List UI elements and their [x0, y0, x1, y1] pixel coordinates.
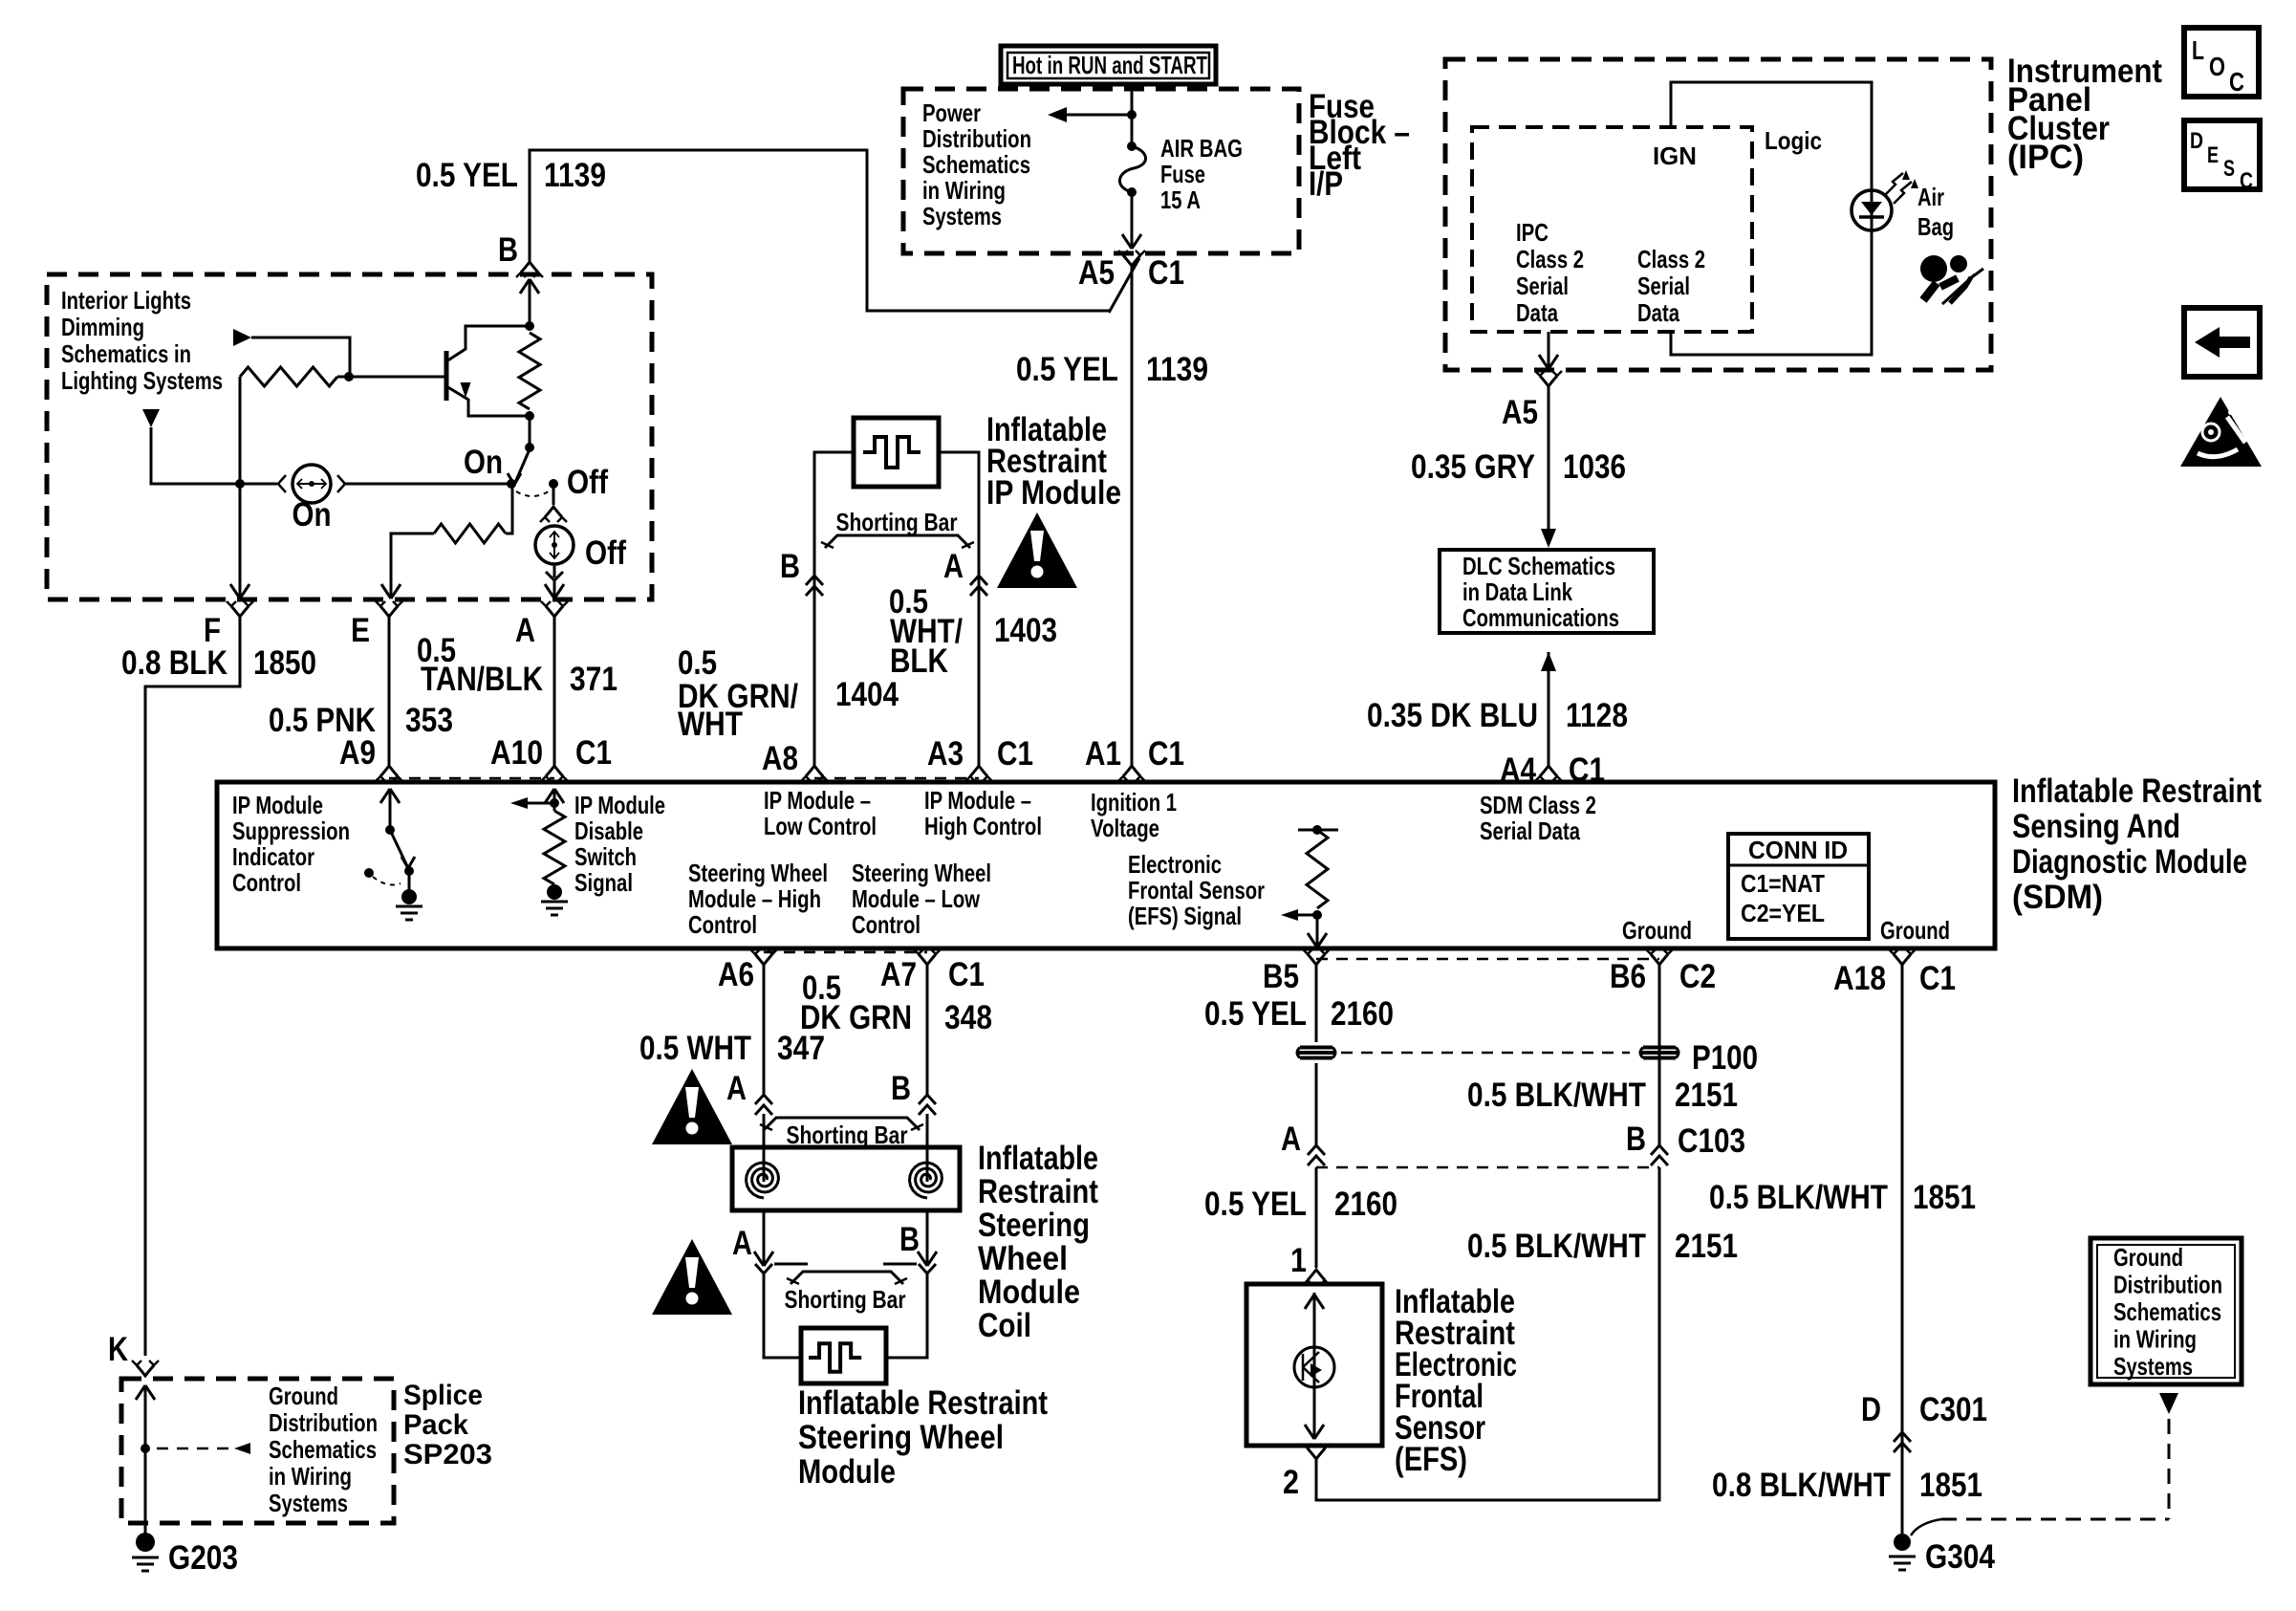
svg-text:1851: 1851: [1919, 1467, 1982, 1504]
svg-text:2151: 2151: [1675, 1077, 1738, 1114]
svg-text:C2=YEL: C2=YEL: [1741, 899, 1825, 927]
svg-text:Frontal Sensor: Frontal Sensor: [1128, 876, 1265, 904]
svg-text:1: 1: [1290, 1242, 1307, 1279]
svg-text:IPC: IPC: [1516, 218, 1549, 247]
svg-text:G304: G304: [1925, 1538, 1995, 1576]
arrow to other power distribution circuits: [1065, 114, 1132, 117]
svg-text:Suppression: Suppression: [232, 816, 350, 845]
steering wheel module squib box: [801, 1328, 886, 1383]
svg-text:Ground: Ground: [269, 1382, 338, 1410]
svg-text:Control: Control: [688, 910, 757, 939]
svg-text:A5: A5: [1078, 254, 1115, 292]
svg-text:A: A: [943, 548, 964, 585]
svg-text:Class 2: Class 2: [1516, 245, 1584, 273]
dashed reference wire to G304: [2168, 1419, 2171, 1519]
svg-text:A18: A18: [1833, 960, 1886, 997]
svg-text:Wheel: Wheel: [978, 1240, 1068, 1277]
svg-text:E: E: [2207, 142, 2219, 168]
svg-text:2151: 2151: [1675, 1228, 1738, 1265]
svg-text:0.5 YEL: 0.5 YEL: [1204, 995, 1307, 1033]
svg-text:C1: C1: [1919, 960, 1956, 997]
svg-text:E: E: [351, 612, 370, 649]
svg-text:Off: Off: [585, 534, 626, 572]
EFS signal pull-up resistor: [1298, 829, 1338, 832]
svg-text:C1: C1: [948, 956, 985, 993]
svg-text:Splice: Splice: [403, 1380, 483, 1411]
svg-text:0.8 BLK: 0.8 BLK: [121, 644, 227, 682]
svg-text:(EFS): (EFS): [1395, 1441, 1467, 1478]
svg-text:Steering: Steering: [978, 1207, 1090, 1244]
svg-text:CONN ID: CONN ID: [1748, 836, 1848, 864]
svg-text:0.5: 0.5: [678, 644, 717, 682]
svg-text:Control: Control: [232, 868, 301, 897]
ground distribution reference box: [2090, 1238, 2242, 1384]
svg-text:B: B: [780, 548, 800, 585]
shorting bar coil upper: [764, 1118, 920, 1130]
svg-text:Air: Air: [1917, 183, 1944, 211]
DLC schematics box: [1440, 550, 1654, 633]
svg-text:A8: A8: [762, 740, 798, 777]
svg-text:(EFS) Signal: (EFS) Signal: [1128, 902, 1242, 930]
svg-text:Hot in RUN and START: Hot in RUN and START: [1012, 51, 1207, 79]
wire squib B leg: [814, 452, 854, 766]
svg-text:A7: A7: [880, 956, 917, 993]
svg-text:0.5 BLK/WHT: 0.5 BLK/WHT: [1467, 1077, 1646, 1114]
transistor Q1 base wire: [349, 376, 445, 379]
svg-text:0.35 GRY: 0.35 GRY: [1411, 448, 1535, 486]
svg-text:DLC Schematics: DLC Schematics: [1462, 552, 1615, 580]
squib element: [863, 437, 921, 468]
svg-text:TAN/BLK: TAN/BLK: [421, 661, 543, 698]
svg-text:High Control: High Control: [924, 812, 1042, 840]
svg-text:0.5 WHT: 0.5 WHT: [639, 1030, 751, 1067]
wire into coil: [763, 1114, 766, 1182]
air bag indicator LED: [1852, 190, 1892, 230]
svg-text:353: 353: [405, 702, 453, 739]
node emitter junction: [525, 411, 534, 421]
svg-text:I/P: I/P: [1309, 165, 1343, 203]
svg-text:C: C: [2229, 67, 2244, 97]
svg-text:C: C: [2240, 168, 2253, 194]
warning triangle IP module: [997, 512, 1077, 588]
svg-text:Inflatable Restraint: Inflatable Restraint: [2012, 773, 2262, 810]
svg-text:Dimming: Dimming: [61, 313, 144, 341]
svg-text:348: 348: [944, 999, 992, 1036]
svg-text:0.35 DK BLU: 0.35 DK BLU: [1367, 697, 1538, 734]
svg-text:Class 2: Class 2: [1637, 245, 1705, 273]
indicator lamp Off: [535, 526, 574, 564]
svg-text:Steering Wheel: Steering Wheel: [688, 859, 828, 887]
logic block: [1671, 82, 1872, 355]
connector C1 dashed joint: [389, 777, 554, 780]
svg-text:Fuse: Fuse: [1160, 160, 1205, 188]
svg-text:Switch: Switch: [574, 842, 637, 871]
svg-text:A1: A1: [1085, 735, 1121, 773]
svg-text:SDM Class 2: SDM Class 2: [1480, 791, 1596, 819]
svg-text:Disable: Disable: [574, 816, 643, 845]
svg-text:Serial: Serial: [1637, 272, 1690, 300]
splice pack SP203 dashed box: [121, 1379, 394, 1523]
svg-text:B: B: [1626, 1121, 1646, 1158]
svg-text:Steering Wheel: Steering Wheel: [798, 1419, 1004, 1456]
svg-text:IP Module: IP Module: [574, 791, 665, 819]
dashed splice branch with arrow: [157, 1448, 229, 1450]
steering wheel module coil box: [732, 1147, 960, 1210]
wire 0.5 YEL 1139 from A5 to disable switch B: [530, 150, 1111, 311]
connector A5/C1 fuse block: [1123, 255, 1140, 266]
interior lights dimming dashed box: [47, 274, 652, 599]
svg-text:Steering Wheel: Steering Wheel: [852, 859, 991, 887]
wire Off leg: [552, 488, 555, 505]
instrument panel cluster dashed box: [1445, 59, 1991, 370]
grommet dashed tie: [1341, 1052, 1630, 1055]
svg-text:Module – Low: Module – Low: [852, 884, 981, 913]
wire B into box with arrow: [520, 279, 530, 294]
junction dot: [1127, 110, 1137, 120]
svg-text:A: A: [515, 612, 535, 649]
svg-text:AIR BAG: AIR BAG: [1160, 134, 1243, 163]
svg-text:C1: C1: [997, 735, 1033, 773]
wire squib A leg: [939, 452, 979, 766]
svg-text:Systems: Systems: [2113, 1352, 2193, 1381]
svg-text:WHT: WHT: [678, 706, 743, 743]
reference triangle: [2159, 1393, 2178, 1414]
wire into SP203 with arrow: [136, 1385, 145, 1400]
svg-text:A: A: [1281, 1121, 1301, 1158]
svg-text:D: D: [2190, 128, 2203, 154]
power feed box 'Hot in RUN and START': [1001, 46, 1216, 84]
wire break chevrons coil upper: [755, 1095, 772, 1104]
svg-text:2160: 2160: [1331, 995, 1394, 1033]
svg-text:371: 371: [570, 661, 617, 698]
wire 0.5 BLK/WHT 2151 from B6: [1658, 965, 1661, 1145]
svg-text:Module: Module: [798, 1453, 896, 1491]
connector A: [546, 606, 563, 617]
svg-text:0.8 BLK/WHT: 0.8 BLK/WHT: [1712, 1467, 1891, 1504]
resistor R1 base feed: [240, 367, 337, 386]
svg-text:Distribution: Distribution: [269, 1408, 378, 1437]
svg-text:B: B: [891, 1070, 911, 1107]
svg-text:Pack: Pack: [403, 1409, 468, 1441]
svg-text:Interior Lights: Interior Lights: [61, 286, 191, 315]
svg-text:C103: C103: [1678, 1122, 1745, 1160]
LED light arrows: [1885, 173, 1903, 195]
svg-text:IP Module –: IP Module –: [924, 786, 1031, 815]
disable switch signal pull-up: [545, 789, 554, 803]
ground G203: [136, 1533, 155, 1552]
svg-text:D: D: [1861, 1391, 1881, 1428]
svg-text:Distribution: Distribution: [2113, 1271, 2222, 1299]
svg-text:Indicator: Indicator: [232, 842, 314, 871]
EFS sensor box: [1246, 1284, 1382, 1446]
svg-text:Sensing And: Sensing And: [2012, 808, 2180, 845]
svg-text:0.5 YEL: 0.5 YEL: [1204, 1186, 1307, 1223]
wire lamp row: [151, 427, 277, 484]
svg-text:Shorting Bar: Shorting Bar: [785, 1285, 906, 1314]
svg-text:in Wiring: in Wiring: [922, 176, 1006, 205]
svg-text:Module – High: Module – High: [688, 884, 821, 913]
wire R3 to E exit: [391, 533, 434, 577]
svg-text:(SDM): (SDM): [2012, 879, 2103, 916]
svg-text:A5: A5: [1502, 394, 1538, 431]
switch throw dashed arc: [516, 491, 549, 496]
svg-text:Schematics in: Schematics in: [61, 339, 191, 368]
svg-text:Schematics: Schematics: [269, 1435, 377, 1464]
svg-text:1128: 1128: [1566, 697, 1628, 734]
child seat warning triangle icon: [2180, 397, 2262, 467]
svg-text:S: S: [2223, 156, 2235, 182]
wire coil lower legs with arrows: [763, 1210, 766, 1266]
wire 0.35 DK BLU 1128: [1541, 652, 1556, 671]
connector A5 IPC: [1540, 376, 1557, 386]
svg-text:C1=NAT: C1=NAT: [1741, 869, 1825, 898]
LOC icon: [2184, 28, 2259, 97]
connector E: [380, 606, 398, 617]
svg-text:Communications: Communications: [1462, 603, 1619, 632]
svg-text:B6: B6: [1610, 958, 1646, 995]
ground at disable resistor: [541, 901, 568, 903]
squib element: [809, 1343, 861, 1371]
indicator lamp On: [292, 465, 331, 503]
wire 0.5 WHT 347 from A6: [763, 965, 766, 1095]
svg-text:Schematics: Schematics: [2113, 1297, 2221, 1326]
svg-text:Inflatable: Inflatable: [978, 1140, 1098, 1177]
wire R1 left leg down: [239, 377, 242, 484]
svg-text:C1: C1: [575, 734, 612, 772]
svg-text:Restraint: Restraint: [978, 1173, 1098, 1210]
svg-text:Ignition 1: Ignition 1: [1091, 788, 1177, 816]
svg-text:A3: A3: [927, 735, 964, 773]
svg-text:A10: A10: [490, 734, 543, 772]
wire break chevrons: [806, 576, 823, 585]
wire 0.5 YEL 2160 to EFS: [1315, 1167, 1318, 1268]
svg-text:Ground: Ground: [2113, 1243, 2183, 1272]
dimming feed arrow: [233, 329, 251, 346]
fuse block dashed box: [903, 89, 1299, 253]
svg-text:B: B: [899, 1221, 920, 1258]
svg-text:IP Module –: IP Module –: [764, 786, 871, 815]
svg-text:Systems: Systems: [269, 1489, 348, 1517]
svg-text:C301: C301: [1919, 1391, 1987, 1428]
warning triangle coil upper: [652, 1069, 732, 1144]
resistor R3: [434, 524, 506, 543]
svg-text:1851: 1851: [1913, 1179, 1976, 1216]
svg-text:C1: C1: [1148, 254, 1184, 292]
svg-text:Power: Power: [922, 98, 981, 127]
svg-text:Off: Off: [567, 464, 608, 501]
wire to switch pivot: [529, 416, 531, 446]
inflatable restraint sensing and diagnostic module (SDM) box: [217, 782, 1995, 948]
svg-text:1036: 1036: [1563, 448, 1626, 486]
svg-text:Bag: Bag: [1917, 212, 1954, 241]
wire B5 to C103: [1315, 1063, 1318, 1145]
exit arrows at box bottom: [239, 484, 242, 599]
inflatable restraint IP module squib box: [854, 418, 939, 487]
wire Off lamp down: [553, 564, 556, 577]
svg-text:P100: P100: [1692, 1039, 1758, 1077]
svg-text:B: B: [498, 231, 518, 269]
back arrow icon: [2184, 308, 2260, 377]
coil spiral right: [910, 1163, 942, 1198]
svg-text:2160: 2160: [1334, 1186, 1397, 1223]
resistor R2 (pull-up): [519, 333, 540, 409]
svg-text:On: On: [464, 444, 503, 481]
wire 0.8 BLK 1850: [145, 617, 240, 1356]
svg-text:0.5 YEL: 0.5 YEL: [416, 157, 518, 194]
svg-text:C1: C1: [1148, 735, 1184, 773]
grommet P100 left: [1300, 1046, 1332, 1050]
svg-text:1139: 1139: [1146, 351, 1208, 388]
svg-text:Ground: Ground: [1622, 916, 1692, 945]
svg-text:Inflatable Restraint: Inflatable Restraint: [798, 1384, 1048, 1422]
svg-text:1404: 1404: [835, 676, 899, 713]
svg-text:A: A: [726, 1070, 747, 1107]
svg-text:Module: Module: [978, 1274, 1080, 1311]
wire fuse output with arrow: [1131, 192, 1134, 249]
ground at suppression switch: [396, 905, 422, 908]
svg-text:Systems: Systems: [922, 202, 1002, 230]
svg-text:Data: Data: [1516, 298, 1558, 327]
svg-text:0.5 BLK/WHT: 0.5 BLK/WHT: [1467, 1228, 1646, 1265]
svg-text:347: 347: [777, 1030, 825, 1067]
svg-text:On: On: [292, 496, 332, 533]
connector slash: [1109, 258, 1139, 313]
EFS deceleration sensor: [1294, 1347, 1334, 1387]
svg-text:A6: A6: [718, 956, 754, 993]
svg-text:Signal: Signal: [574, 868, 633, 897]
wire 0.5 YEL 2160 from B5: [1315, 965, 1318, 1042]
switch arm On: [514, 449, 530, 485]
connector F: [231, 606, 249, 617]
svg-text:Voltage: Voltage: [1091, 814, 1159, 842]
svg-text:Low Control: Low Control: [764, 812, 877, 840]
switch alternate position dashed arc: [364, 868, 374, 878]
wire 0.5 PNK 353: [388, 617, 391, 766]
svg-text:L: L: [2192, 35, 2204, 65]
connector C1 dashed joint: [814, 777, 979, 780]
svg-text:Electronic: Electronic: [1128, 850, 1222, 879]
wire to steering wheel squib: [764, 1274, 801, 1358]
svg-text:A: A: [732, 1225, 752, 1262]
wire ignition 1 voltage 0.5 YEL 1139 to SDM A1: [1131, 266, 1134, 766]
svg-text:Serial: Serial: [1516, 272, 1569, 300]
svg-text:Coil: Coil: [978, 1307, 1031, 1344]
wire On to resistor R3: [506, 488, 512, 533]
transistor Q1: [444, 351, 449, 401]
svg-text:C2: C2: [1679, 958, 1716, 995]
svg-text:1403: 1403: [994, 612, 1057, 649]
wire from Hot feed down into fuse block: [1131, 84, 1134, 146]
svg-text:IP Module: IP Module: [232, 791, 323, 819]
svg-text:Shorting Bar: Shorting Bar: [836, 508, 958, 536]
svg-text:Data: Data: [1637, 298, 1679, 327]
air bag pictogram: [1920, 255, 1947, 282]
CONN ID legend box: [1728, 834, 1869, 939]
node collector junction: [525, 321, 534, 331]
svg-text:15 A: 15 A: [1160, 185, 1201, 214]
svg-text:(IPC): (IPC): [2007, 139, 2084, 176]
svg-text:1850: 1850: [253, 644, 316, 682]
svg-text:0.5 YEL: 0.5 YEL: [1016, 351, 1118, 388]
svg-text:K: K: [108, 1331, 128, 1368]
node Off contact: [549, 479, 558, 489]
grommet P100 right: [1643, 1046, 1676, 1050]
wire R1 to base node: [337, 376, 349, 379]
node On contact: [507, 479, 516, 489]
svg-text:G203: G203: [168, 1539, 238, 1577]
IGN dashed box: [1472, 127, 1752, 332]
warning triangle coil lower: [652, 1239, 732, 1315]
wire EFS return to 2151: [1316, 1167, 1659, 1500]
splice node: [141, 1444, 150, 1453]
connector cups coil lower: [755, 1264, 772, 1274]
svg-text:IP Module: IP Module: [986, 474, 1121, 512]
svg-text:in Data Link: in Data Link: [1462, 577, 1572, 606]
svg-text:BLK: BLK: [890, 642, 948, 680]
suppression indicator switch: [380, 789, 390, 803]
svg-text:SP203: SP203: [403, 1439, 492, 1470]
svg-text:Schematics: Schematics: [922, 150, 1030, 179]
shorting bar coil lower: [791, 1272, 903, 1284]
wire 0.5 TAN/BLK 371: [553, 617, 556, 766]
svg-text:Lighting Systems: Lighting Systems: [61, 366, 223, 395]
svg-text:Ground: Ground: [1880, 916, 1950, 945]
lamp feed triangle: [142, 409, 160, 427]
EFS internal wire: [1305, 1295, 1314, 1309]
svg-text:B5: B5: [1263, 958, 1299, 995]
DESC icon: [2184, 120, 2260, 189]
svg-text:0.5 BLK/WHT: 0.5 BLK/WHT: [1709, 1179, 1888, 1216]
svg-text:Diagnostic Module: Diagnostic Module: [2012, 843, 2247, 881]
coil spiral left: [747, 1163, 779, 1198]
svg-text:in Wiring: in Wiring: [269, 1462, 352, 1491]
svg-text:Serial Data: Serial Data: [1480, 816, 1580, 845]
wire 0.5 BLK/WHT 1851 from A18: [1901, 965, 1904, 1534]
wire 0.5 DK GRN 348 from A7: [926, 965, 929, 1095]
svg-text:2: 2: [1283, 1464, 1299, 1501]
fuse F1 AIR BAG 15 A: [1127, 142, 1137, 151]
svg-text:Logic: Logic: [1765, 126, 1822, 155]
svg-text:O: O: [2209, 52, 2225, 81]
svg-text:A9: A9: [339, 734, 376, 772]
resistor R4 disable switch: [544, 811, 565, 884]
wire IGN serial data down with arrow: [1548, 332, 1550, 369]
ground G304: [1894, 1534, 1911, 1551]
svg-text:1139: 1139: [544, 157, 606, 194]
svg-text:IGN: IGN: [1653, 142, 1697, 170]
node lamp row junction: [235, 479, 245, 489]
svg-text:Distribution: Distribution: [922, 124, 1031, 153]
svg-text:in Wiring: in Wiring: [2113, 1325, 2197, 1354]
wire 0.35 GRY 1036: [1548, 386, 1550, 529]
svg-text:Control: Control: [852, 910, 921, 939]
